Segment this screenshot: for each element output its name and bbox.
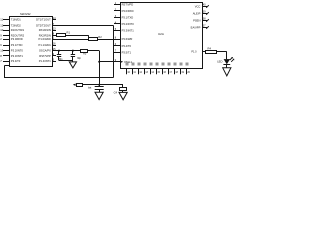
svg-text:13: 13 xyxy=(0,49,3,53)
svg-text:P3.2/INT0: P3.2/INT0 xyxy=(122,22,135,26)
svg-text:P3.3/INT1: P3.3/INT1 xyxy=(122,28,135,32)
svg-text:10: 10 xyxy=(0,28,3,32)
svg-text:T2IN/D2: T2IN/D2 xyxy=(11,24,22,28)
svg-text:ALE/P: ALE/P xyxy=(193,12,201,16)
svg-text:DT1/T1OUT: DT1/T1OUT xyxy=(36,17,51,21)
svg-text:P3.6/WR: P3.6/WR xyxy=(122,37,133,41)
svg-text:P1.4/INT1: P1.4/INT1 xyxy=(39,59,52,63)
svg-text:11: 11 xyxy=(0,17,3,21)
svg-text:P3.0/RXD: P3.0/RXD xyxy=(122,9,134,13)
svg-text:VCC: VCC xyxy=(195,5,201,9)
svg-text:MAX232: MAX232 xyxy=(20,12,31,16)
svg-text:P3.0/RXD: P3.0/RXD xyxy=(11,37,23,41)
svg-text:P3.3/INT1: P3.3/INT1 xyxy=(11,54,24,58)
svg-text:12: 12 xyxy=(0,24,3,28)
svg-text:U2A: U2A xyxy=(158,32,164,36)
svg-text:R2: R2 xyxy=(98,35,102,39)
svg-text:R2OUT/R2: R2OUT/R2 xyxy=(11,33,25,37)
svg-text:RST/VPD: RST/VPD xyxy=(122,2,134,6)
svg-text:R1OUT/R1: R1OUT/R1 xyxy=(11,28,25,32)
svg-text:RX1/R1IN: RX1/R1IN xyxy=(39,28,51,32)
svg-text:RST/VPP: RST/VPP xyxy=(39,54,51,58)
svg-text:P3.5/T1: P3.5/T1 xyxy=(122,50,132,54)
svg-text:PSEN: PSEN xyxy=(193,19,200,23)
svg-text:DT2/T2OUT: DT2/T2OUT xyxy=(36,24,51,28)
svg-text:P1.0/AIN0: P1.0/AIN0 xyxy=(39,37,52,41)
svg-text:RX2/R2IN: RX2/R2IN xyxy=(39,33,51,37)
svg-text:P3.1/TXD: P3.1/TXD xyxy=(11,43,23,47)
svg-text:T1IN/D1: T1IN/D1 xyxy=(11,17,22,21)
svg-text:LED: LED xyxy=(217,60,222,64)
svg-text:R1: R1 xyxy=(67,30,71,34)
svg-text:C4: C4 xyxy=(114,91,118,95)
svg-text:EA/VPP: EA/VPP xyxy=(191,26,201,30)
svg-text:P1.0: P1.0 xyxy=(191,50,197,53)
svg-text:P3.4/T0: P3.4/T0 xyxy=(122,44,132,48)
svg-text:P3.1/TXD: P3.1/TXD xyxy=(122,15,134,19)
svg-text:P3.2/INT0: P3.2/INT0 xyxy=(11,49,24,53)
svg-text:P1.1/AIN1: P1.1/AIN1 xyxy=(39,43,52,47)
svg-text:R4: R4 xyxy=(208,47,212,51)
svg-text:P3.4/T0: P3.4/T0 xyxy=(11,59,21,63)
svg-text:OSCA/PX: OSCA/PX xyxy=(39,49,51,53)
svg-text:bat: bat xyxy=(88,86,92,89)
